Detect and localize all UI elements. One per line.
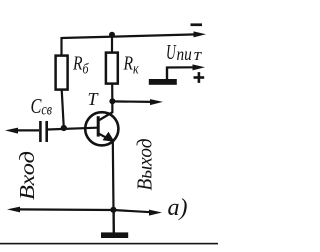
wire Rб top lead	[60, 37, 62, 56]
arrow input	[5, 128, 18, 134]
svg-text:T: T	[88, 89, 100, 109]
svg-text:Rб: Rб	[72, 52, 89, 77]
resistor Rк	[106, 53, 118, 84]
wire emitter vertical	[112, 140, 115, 210]
transistor T circle	[85, 112, 118, 145]
transistor collector line	[99, 112, 113, 121]
resistor Rб	[56, 56, 68, 90]
wire bottom rail right	[114, 210, 152, 212]
wire top rail	[62, 34, 197, 38]
arrow bottom left	[7, 207, 20, 213]
svg-text:т: т	[192, 44, 204, 64]
ground stem	[112, 210, 115, 233]
wire bottom rail left	[17, 208, 114, 211]
plus sign	[194, 76, 205, 79]
wire Rк top lead	[111, 35, 113, 53]
arrow collector output	[150, 99, 163, 105]
wire input left segment	[16, 129, 39, 131]
node collector	[109, 98, 115, 104]
node emitter bottom junction	[110, 207, 116, 213]
svg-text:U: U	[166, 40, 177, 64]
supply bar	[149, 79, 177, 85]
arrow bottom right	[149, 210, 162, 216]
node top junction	[109, 32, 115, 38]
minus sign	[191, 23, 203, 26]
capacitor Cсв	[39, 121, 42, 142]
transistor emitter arrow	[103, 132, 115, 142]
supply arrow Uпит	[167, 66, 194, 68]
ground bar	[101, 232, 128, 238]
arrow top rail right	[194, 31, 207, 37]
figure bottom rule	[0, 243, 218, 245]
wire collector output	[113, 100, 152, 103]
node base junction	[61, 125, 67, 131]
svg-text:пи: пи	[177, 44, 192, 64]
transistor base bar	[97, 116, 100, 136]
arrow supply tip	[193, 64, 206, 70]
svg-text:а): а)	[168, 195, 188, 221]
wire Rб bottom lead	[62, 90, 64, 128]
wire Rк bottom lead	[111, 84, 113, 113]
svg-text:Выход: Выход	[133, 139, 157, 191]
transistor emitter line	[99, 134, 113, 141]
wire base lead	[48, 128, 97, 130]
svg-text:Rк: Rк	[123, 52, 140, 77]
svg-text:Вход: Вход	[15, 151, 39, 200]
supply riser	[166, 67, 168, 81]
svg-text:Cсв: Cсв	[31, 95, 53, 119]
